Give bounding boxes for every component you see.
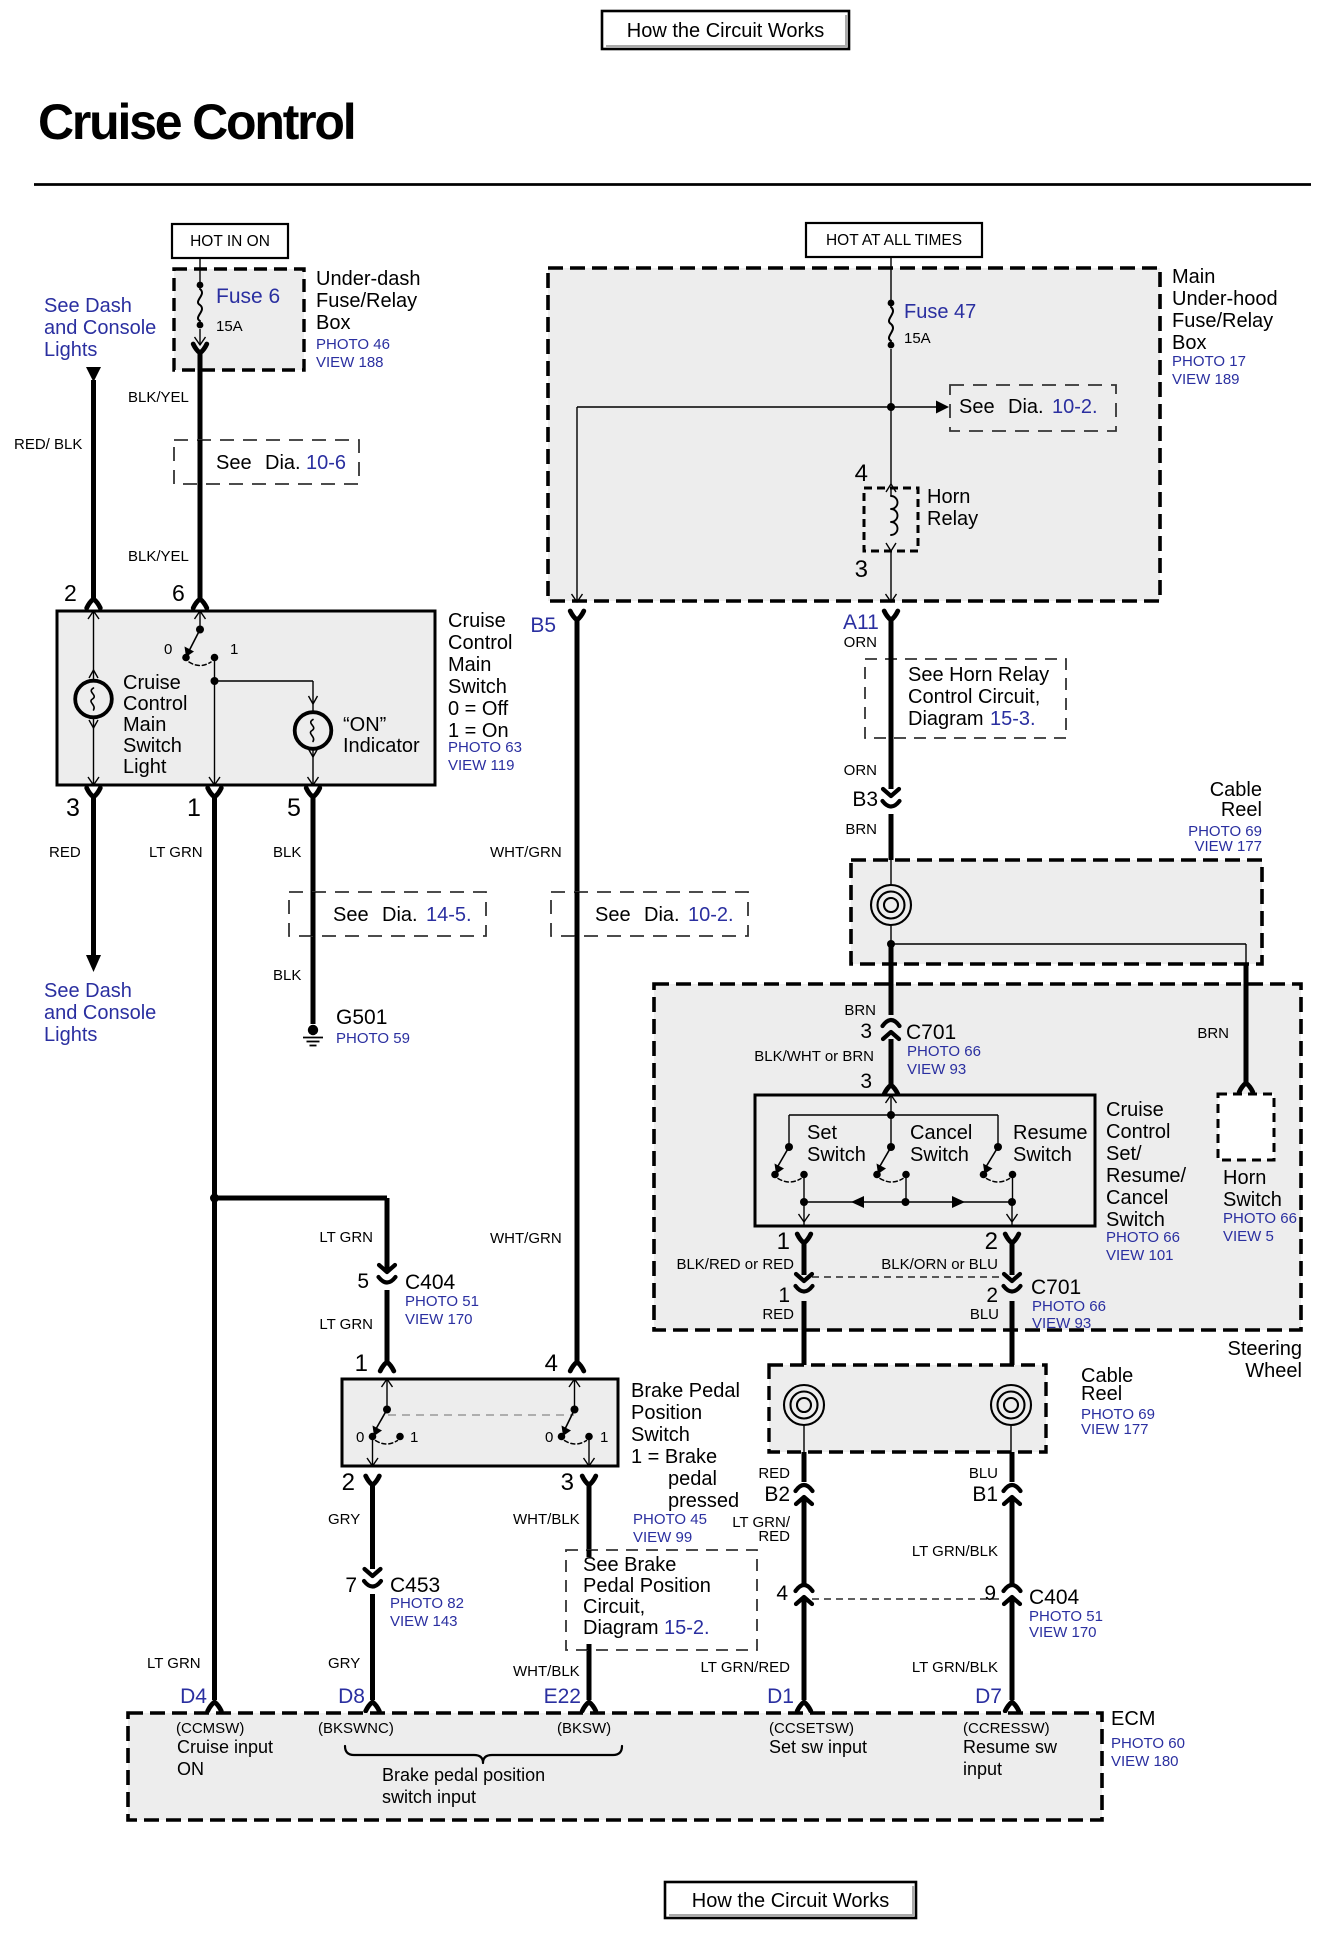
svg-text:10-6: 10-6 <box>306 452 346 474</box>
svg-text:2: 2 <box>64 580 77 606</box>
svg-text:VIEW 119: VIEW 119 <box>448 757 514 774</box>
svg-text:HOT IN ON: HOT IN ON <box>190 233 270 250</box>
svg-text:PHOTO 63: PHOTO 63 <box>448 739 522 756</box>
svg-text:PHOTO 66: PHOTO 66 <box>1106 1229 1180 1246</box>
svg-text:PHOTO 51: PHOTO 51 <box>1029 1608 1103 1625</box>
svg-text:Fuse/Relay: Fuse/Relay <box>1172 310 1273 332</box>
svg-text:15A: 15A <box>216 318 243 335</box>
svg-text:Resume/: Resume/ <box>1106 1165 1186 1187</box>
svg-text:Diagram: Diagram <box>908 708 984 730</box>
svg-text:VIEW 180: VIEW 180 <box>1111 1753 1179 1770</box>
svg-text:Brake Pedal: Brake Pedal <box>631 1380 740 1402</box>
svg-text:See: See <box>216 452 252 474</box>
svg-text:WHT/BLK: WHT/BLK <box>513 1511 580 1528</box>
svg-text:Horn: Horn <box>927 486 970 508</box>
svg-text:VIEW 170: VIEW 170 <box>1029 1624 1097 1641</box>
svg-text:PHOTO 51: PHOTO 51 <box>405 1293 479 1310</box>
svg-text:Switch: Switch <box>1106 1209 1165 1231</box>
svg-text:C404: C404 <box>1029 1586 1080 1609</box>
svg-text:Under-hood: Under-hood <box>1172 288 1278 310</box>
svg-text:2: 2 <box>985 1228 998 1255</box>
svg-text:ECM: ECM <box>1111 1708 1155 1730</box>
svg-text:B5: B5 <box>530 614 556 637</box>
svg-text:3: 3 <box>66 794 80 822</box>
svg-text:Resume sw: Resume sw <box>963 1737 1058 1757</box>
svg-text:VIEW 93: VIEW 93 <box>907 1061 966 1078</box>
svg-text:BRN: BRN <box>845 821 877 838</box>
svg-text:0: 0 <box>164 641 172 658</box>
svg-text:BLK/YEL: BLK/YEL <box>128 548 189 565</box>
svg-text:RED/ BLK: RED/ BLK <box>14 436 82 453</box>
svg-text:2: 2 <box>986 1284 998 1307</box>
svg-text:See Dash: See Dash <box>44 295 132 317</box>
svg-text:Main: Main <box>123 714 166 736</box>
svg-text:7: 7 <box>345 1574 357 1597</box>
svg-text:0: 0 <box>545 1429 553 1446</box>
svg-text:Switch: Switch <box>807 1144 866 1166</box>
svg-text:PHOTO 66: PHOTO 66 <box>907 1043 981 1060</box>
svg-text:ORN: ORN <box>844 762 877 779</box>
svg-text:B2: B2 <box>764 1483 790 1506</box>
svg-text:RED: RED <box>758 1465 790 1482</box>
svg-text:Control: Control <box>448 632 512 654</box>
svg-text:Switch: Switch <box>448 676 507 698</box>
svg-text:Cruise input: Cruise input <box>177 1737 273 1757</box>
svg-text:Set/: Set/ <box>1106 1143 1142 1165</box>
svg-text:Control Circuit,: Control Circuit, <box>908 686 1040 708</box>
svg-text:BRN: BRN <box>1197 1025 1229 1042</box>
svg-text:14-5.: 14-5. <box>426 904 472 926</box>
svg-text:PHOTO 46: PHOTO 46 <box>316 336 390 353</box>
svg-text:WHT/GRN: WHT/GRN <box>490 1230 562 1247</box>
svg-text:2: 2 <box>342 1469 355 1496</box>
svg-text:Dia.: Dia. <box>265 452 301 474</box>
svg-text:VIEW 99: VIEW 99 <box>633 1529 692 1546</box>
svg-text:Cruise: Cruise <box>448 610 506 632</box>
svg-text:BLU: BLU <box>970 1306 999 1323</box>
svg-text:See: See <box>959 396 995 418</box>
svg-text:Under-dash: Under-dash <box>316 268 421 290</box>
svg-text:Lights: Lights <box>44 1024 97 1046</box>
svg-text:Switch: Switch <box>123 735 182 757</box>
svg-text:LT GRN: LT GRN <box>149 844 203 861</box>
svg-text:Control: Control <box>123 693 187 715</box>
svg-text:Main: Main <box>1172 266 1215 288</box>
svg-text:3: 3 <box>561 1469 574 1496</box>
svg-text:Reel: Reel <box>1221 799 1262 821</box>
svg-text:4: 4 <box>855 460 868 487</box>
svg-text:6: 6 <box>172 580 185 606</box>
svg-text:VIEW 188: VIEW 188 <box>316 354 384 371</box>
svg-text:Relay: Relay <box>927 508 978 530</box>
svg-text:Brake pedal position: Brake pedal position <box>382 1765 545 1785</box>
svg-text:Fuse 47: Fuse 47 <box>904 301 976 323</box>
svg-text:Diagram: Diagram <box>583 1617 659 1639</box>
svg-text:See: See <box>595 904 631 926</box>
svg-text:B1: B1 <box>972 1483 998 1506</box>
svg-text:Cruise: Cruise <box>1106 1099 1164 1121</box>
svg-text:VIEW 101: VIEW 101 <box>1106 1247 1174 1264</box>
svg-text:BLK: BLK <box>273 967 301 984</box>
svg-text:LT GRN/RED: LT GRN/RED <box>701 1659 791 1676</box>
svg-text:LT GRN/BLK: LT GRN/BLK <box>912 1659 998 1676</box>
svg-text:1 = Brake: 1 = Brake <box>631 1446 717 1468</box>
svg-text:and Console: and Console <box>44 317 156 339</box>
svg-text:5: 5 <box>287 794 301 822</box>
svg-text:RED: RED <box>762 1306 794 1323</box>
svg-text:VIEW 143: VIEW 143 <box>390 1613 458 1630</box>
svg-text:RED: RED <box>758 1528 790 1545</box>
svg-text:How the Circuit Works: How the Circuit Works <box>692 1890 889 1912</box>
svg-text:VIEW 170: VIEW 170 <box>405 1311 473 1328</box>
svg-text:VIEW 189: VIEW 189 <box>1172 371 1240 388</box>
svg-text:A11: A11 <box>843 611 879 634</box>
svg-text:15-2.: 15-2. <box>664 1617 710 1639</box>
svg-text:4: 4 <box>545 1350 558 1377</box>
svg-text:C701: C701 <box>1031 1276 1081 1299</box>
svg-text:and Console: and Console <box>44 1002 156 1024</box>
svg-text:LT GRN/BLK: LT GRN/BLK <box>912 1543 998 1560</box>
svg-text:Dia.: Dia. <box>1008 396 1044 418</box>
svg-text:1: 1 <box>778 1284 790 1307</box>
svg-text:BLK/RED or RED: BLK/RED or RED <box>676 1256 794 1273</box>
svg-text:PHOTO 45: PHOTO 45 <box>633 1511 707 1528</box>
svg-text:5: 5 <box>357 1270 369 1293</box>
svg-text:PHOTO 82: PHOTO 82 <box>390 1595 464 1612</box>
svg-text:15-3.: 15-3. <box>990 708 1036 730</box>
svg-text:3: 3 <box>860 1070 872 1093</box>
svg-text:D8: D8 <box>338 1685 365 1708</box>
svg-text:Pedal Position: Pedal Position <box>583 1575 711 1597</box>
svg-text:BLK/WHT or BRN: BLK/WHT or BRN <box>754 1048 874 1065</box>
svg-text:“ON”: “ON” <box>343 714 386 736</box>
svg-text:BRN: BRN <box>844 1002 876 1019</box>
svg-text:Dia.: Dia. <box>382 904 418 926</box>
svg-text:3: 3 <box>855 556 868 583</box>
svg-text:VIEW 5: VIEW 5 <box>1223 1228 1274 1245</box>
svg-text:LT GRN: LT GRN <box>147 1655 201 1672</box>
svg-text:Light: Light <box>123 756 167 778</box>
svg-text:BLK/ORN or BLU: BLK/ORN or BLU <box>881 1256 998 1273</box>
svg-text:D1: D1 <box>767 1685 794 1708</box>
svg-text:PHOTO 59: PHOTO 59 <box>336 1030 410 1047</box>
svg-text:(CCMSW): (CCMSW) <box>176 1720 244 1737</box>
svg-text:15A: 15A <box>904 330 931 347</box>
svg-text:Cancel: Cancel <box>910 1122 972 1144</box>
svg-text:Main: Main <box>448 654 491 676</box>
svg-text:C404: C404 <box>405 1271 456 1294</box>
svg-text:Dia.: Dia. <box>644 904 680 926</box>
svg-text:LT GRN: LT GRN <box>319 1229 373 1246</box>
svg-text:Cable: Cable <box>1210 779 1262 801</box>
svg-text:Indicator: Indicator <box>343 735 420 757</box>
svg-text:See: See <box>333 904 369 926</box>
svg-text:PHOTO 60: PHOTO 60 <box>1111 1735 1185 1752</box>
svg-text:D7: D7 <box>975 1685 1002 1708</box>
svg-text:Set: Set <box>807 1122 837 1144</box>
svg-text:Switch: Switch <box>1013 1144 1072 1166</box>
svg-text:Switch: Switch <box>1223 1189 1282 1211</box>
svg-text:(BKSW): (BKSW) <box>557 1720 611 1737</box>
svg-text:Set sw input: Set sw input <box>769 1737 867 1757</box>
svg-text:Lights: Lights <box>44 339 97 361</box>
svg-text:10-2.: 10-2. <box>688 904 734 926</box>
svg-text:BLK: BLK <box>273 844 301 861</box>
svg-text:See Brake: See Brake <box>583 1554 676 1576</box>
svg-text:C453: C453 <box>390 1574 440 1597</box>
svg-text:WHT/GRN: WHT/GRN <box>490 844 562 861</box>
svg-text:0: 0 <box>356 1429 364 1446</box>
svg-text:VIEW 177: VIEW 177 <box>1081 1421 1149 1438</box>
svg-text:ORN: ORN <box>844 634 877 651</box>
svg-text:1: 1 <box>410 1429 418 1446</box>
svg-text:Fuse/Relay: Fuse/Relay <box>316 290 417 312</box>
svg-text:Wheel: Wheel <box>1245 1360 1302 1382</box>
svg-text:Cancel: Cancel <box>1106 1187 1168 1209</box>
svg-text:See Dash: See Dash <box>44 980 132 1002</box>
svg-text:C701: C701 <box>906 1021 956 1044</box>
svg-text:Control: Control <box>1106 1121 1170 1143</box>
svg-text:RED: RED <box>49 844 81 861</box>
svg-text:WHT/BLK: WHT/BLK <box>513 1663 580 1680</box>
svg-text:B3: B3 <box>852 788 878 811</box>
svg-text:(CCRESSW): (CCRESSW) <box>963 1720 1050 1737</box>
svg-text:0 = Off: 0 = Off <box>448 698 509 720</box>
svg-text:3: 3 <box>860 1020 872 1043</box>
svg-text:VIEW 93: VIEW 93 <box>1032 1315 1091 1332</box>
svg-text:Steering: Steering <box>1228 1338 1303 1360</box>
svg-text:switch input: switch input <box>382 1787 476 1807</box>
svg-text:9: 9 <box>984 1582 996 1605</box>
svg-text:1: 1 <box>355 1350 368 1377</box>
svg-text:BLU: BLU <box>969 1465 998 1482</box>
svg-text:How the Circuit Works: How the Circuit Works <box>627 20 824 42</box>
svg-text:pressed: pressed <box>668 1490 739 1512</box>
svg-text:Box: Box <box>316 312 350 334</box>
svg-text:Fuse 6: Fuse 6 <box>216 285 280 308</box>
svg-text:LT GRN: LT GRN <box>319 1316 373 1333</box>
svg-text:(BKSWNC): (BKSWNC) <box>318 1720 394 1737</box>
svg-text:Cruise: Cruise <box>123 672 181 694</box>
svg-text:Cruise Control: Cruise Control <box>38 94 354 150</box>
svg-text:VIEW 177: VIEW 177 <box>1194 838 1262 855</box>
svg-text:Horn: Horn <box>1223 1167 1266 1189</box>
svg-text:Reel: Reel <box>1081 1383 1122 1405</box>
svg-text:ON: ON <box>177 1759 204 1779</box>
svg-text:Resume: Resume <box>1013 1122 1087 1144</box>
svg-text:(CCSETSW): (CCSETSW) <box>769 1720 854 1737</box>
svg-text:E22: E22 <box>544 1685 581 1708</box>
svg-text:Switch: Switch <box>910 1144 969 1166</box>
svg-text:4: 4 <box>776 1582 788 1605</box>
svg-text:1: 1 <box>230 641 238 658</box>
svg-text:PHOTO 66: PHOTO 66 <box>1223 1210 1297 1227</box>
svg-text:Position: Position <box>631 1402 702 1424</box>
svg-text:pedal: pedal <box>668 1468 717 1490</box>
svg-text:input: input <box>963 1759 1002 1779</box>
svg-text:1: 1 <box>777 1228 790 1255</box>
svg-text:Box: Box <box>1172 332 1206 354</box>
svg-text:1: 1 <box>187 794 201 822</box>
svg-text:PHOTO 66: PHOTO 66 <box>1032 1298 1106 1315</box>
svg-text:See Horn Relay: See Horn Relay <box>908 664 1049 686</box>
svg-text:G501: G501 <box>336 1006 387 1029</box>
svg-text:10-2.: 10-2. <box>1052 396 1098 418</box>
svg-text:GRY: GRY <box>328 1655 360 1672</box>
svg-text:D4: D4 <box>180 1685 207 1708</box>
svg-text:PHOTO 17: PHOTO 17 <box>1172 353 1246 370</box>
svg-text:GRY: GRY <box>328 1511 360 1528</box>
svg-text:HOT AT ALL TIMES: HOT AT ALL TIMES <box>826 232 962 249</box>
svg-text:BLK/YEL: BLK/YEL <box>128 389 189 406</box>
svg-text:Switch: Switch <box>631 1424 690 1446</box>
svg-text:Circuit,: Circuit, <box>583 1596 645 1618</box>
svg-text:1: 1 <box>600 1429 608 1446</box>
